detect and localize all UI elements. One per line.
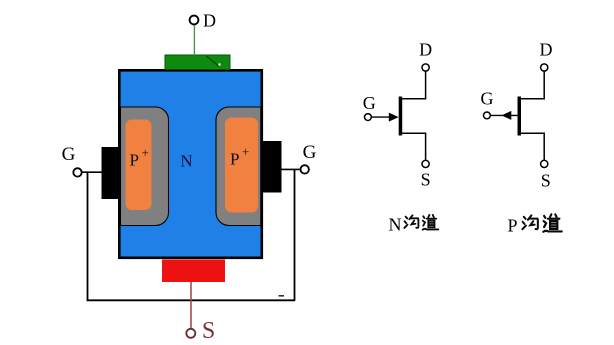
svg-text:S: S: [202, 318, 215, 344]
U2 node D: [541, 64, 548, 71]
wire: left gate drop wire: [87, 172, 89, 301]
U1 gate bar: [399, 97, 403, 136]
U1 node G: [365, 114, 372, 121]
wire: drain lead: [193, 24, 195, 56]
node G left: [73, 168, 81, 176]
gate region right (gray): [216, 107, 261, 226]
scratch artifact on drain contact: [207, 56, 220, 67]
svg-text:G: G: [62, 144, 76, 165]
wire: source lead (dark red): [190, 282, 192, 329]
svg-text:D: D: [419, 40, 432, 60]
wire: right gate drop wire: [294, 169, 296, 301]
svg-text:P: P: [230, 150, 239, 169]
U1 drain lead wire: [401, 71, 426, 99]
U1 node S: [422, 160, 429, 167]
svg-text:S: S: [421, 170, 431, 190]
gate contact right (black): [261, 141, 282, 193]
node D: [190, 16, 199, 25]
svg-text:D: D: [540, 40, 553, 60]
svg-text:G: G: [303, 142, 317, 163]
gate contact left (black): [102, 147, 122, 199]
U1 source lead wire: [401, 133, 426, 160]
svg-text:D: D: [203, 11, 216, 31]
svg-text:G: G: [481, 89, 494, 109]
svg-text:S: S: [541, 171, 551, 191]
svg-text:P: P: [130, 151, 139, 170]
stray mark near bus: [279, 295, 285, 297]
wire: bottom gate bus: [87, 299, 295, 301]
node G right: [301, 165, 309, 173]
U2 node G: [484, 112, 491, 119]
U1 gate wire with arrow into channel: [371, 116, 390, 118]
P+ region right (orange): [225, 118, 258, 213]
U2 node S: [541, 160, 548, 167]
svg-text:N: N: [180, 152, 192, 171]
wire: left gate lead: [82, 171, 104, 173]
U2 gate wire with arrow out of channel: [490, 114, 517, 116]
svg-text:N: N: [389, 215, 402, 235]
N-type body (blue box with black border): [119, 70, 261, 257]
svg-text:+: +: [142, 145, 149, 160]
U2 source lead wire: [520, 133, 545, 160]
P+ region left (orange): [126, 120, 152, 211]
svg-text:+: +: [242, 144, 249, 159]
node S: [186, 329, 195, 338]
svg-text:G: G: [363, 93, 376, 113]
U1 node D: [422, 64, 429, 71]
gate region left (gray): [121, 107, 169, 226]
source contact (red): [162, 260, 225, 283]
U2 gate bar: [518, 97, 522, 136]
drain contact (green): [165, 55, 230, 70]
U2 drain lead wire: [520, 71, 545, 99]
wire: right gate lead: [280, 168, 301, 170]
svg-text:P: P: [508, 216, 518, 236]
